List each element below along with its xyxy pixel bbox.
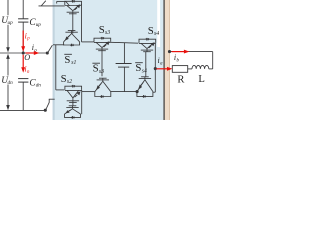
output node dot <box>154 67 157 70</box>
right output bus <box>154 43 156 92</box>
left column right bus <box>81 4 83 42</box>
wire bus to S_s3 <box>82 41 95 43</box>
S_s3 to S-bar-s3 link <box>101 51 103 77</box>
neutral vertical wire <box>55 45 57 90</box>
svg-text:S: S <box>99 24 105 36</box>
left voltage rail upper segment <box>7 0 9 15</box>
capacitor C_up branch top lead <box>22 0 24 19</box>
red arrow i_p <box>22 31 24 48</box>
mid bottom wire <box>82 91 95 93</box>
label S-bar s1 <box>64 53 72 55</box>
capacitor C_up plates <box>18 18 28 20</box>
tan strip (shadow band) <box>165 0 170 120</box>
svg-text:s4: s4 <box>142 68 147 75</box>
svg-text:s4: s4 <box>154 30 159 37</box>
switch S_s2 upper device <box>65 86 82 90</box>
flying capacitor bottom lead <box>123 67 125 92</box>
C_up bottom lead <box>22 22 24 53</box>
S_s2 pair link <box>72 102 74 105</box>
svg-text:p: p <box>26 37 30 42</box>
white gap stripe top right <box>157 0 160 47</box>
bottom rail node dot <box>44 109 47 112</box>
switch S-bar-s4 (rotated, stretched) <box>137 92 153 97</box>
bottom entry blade switch <box>46 102 49 109</box>
switch S_s4 <box>139 39 156 43</box>
bottom entry riser <box>48 99 50 102</box>
capacitor C_dn plates <box>18 78 28 80</box>
label S-bar s4 <box>135 62 143 64</box>
O entry node dot <box>46 51 49 54</box>
wire S_s3 to S_s4 <box>111 41 139 44</box>
switch S-bar-s3 (rotated, stretched) <box>95 92 111 97</box>
flying capacitor top lead <box>123 43 125 64</box>
label S-bar s3 <box>92 62 100 64</box>
red arrow i_o <box>26 52 35 54</box>
svg-text:b: b <box>177 58 180 63</box>
bottom dc rail <box>0 109 45 111</box>
switch S1 top-left (unlabelled upper device) <box>65 1 82 5</box>
load right vertical wire <box>212 52 214 69</box>
bottom-left right bus <box>81 90 83 114</box>
wire L to corner <box>209 68 213 70</box>
svg-text:s2: s2 <box>67 79 72 85</box>
inductor L coil <box>192 65 209 69</box>
S_s4 to S-bar-s4 link <box>145 52 147 77</box>
wire <box>111 91 137 93</box>
left voltage rail mid segment with down arrow (U_up) <box>7 25 9 49</box>
converter block background <box>54 0 164 120</box>
red arrow i_n <box>22 55 24 68</box>
svg-text:n: n <box>27 70 30 75</box>
svg-text:dn: dn <box>36 82 42 88</box>
svg-text:S: S <box>61 73 67 85</box>
svg-text:S: S <box>64 54 70 66</box>
junction dot mid bottom <box>136 90 139 93</box>
link wire S1 to S2 <box>72 14 74 34</box>
neutral to S_s2 wire <box>56 89 64 91</box>
svg-text:s3: s3 <box>99 69 104 75</box>
svg-text:S: S <box>93 63 99 75</box>
node O junction dot <box>22 51 25 54</box>
lower rail up arrow (U_dn) <box>6 54 10 59</box>
wire R to L <box>188 68 192 70</box>
O midpoint wire <box>0 52 47 54</box>
svg-text:O: O <box>24 53 30 62</box>
top dc feed wire <box>39 5 65 7</box>
switch S_s2 lower device (rotated) <box>65 114 81 117</box>
svg-text:R: R <box>177 75 185 86</box>
switch S-bar-s1 device (rotated) <box>64 42 80 45</box>
top return node dot <box>168 50 171 53</box>
block left soft edge <box>53 0 54 120</box>
top return wire <box>170 51 213 53</box>
red arrow i_b <box>172 51 185 53</box>
svg-text:s3: s3 <box>105 30 110 36</box>
switch S_s3 <box>94 38 111 42</box>
red arrow i_a <box>157 68 169 70</box>
O entry wire into block <box>53 44 64 46</box>
top inner step link <box>56 1 58 3</box>
C_dn bottom lead <box>22 82 24 110</box>
O entry blade switch <box>48 45 53 52</box>
bus to staple link <box>153 91 155 93</box>
top entry blade switch <box>41 1 46 6</box>
block right dark border <box>163 0 165 120</box>
svg-text:L: L <box>198 74 204 85</box>
left voltage rail lower segment with down arrow <box>7 85 9 107</box>
resistor R body <box>172 66 187 73</box>
svg-text:S: S <box>135 62 141 74</box>
flying capacitor plates <box>116 63 132 65</box>
svg-text:up: up <box>36 22 42 28</box>
svg-text:S: S <box>148 25 154 37</box>
svg-text:s1: s1 <box>71 60 76 66</box>
bottom entry wire into block <box>49 98 55 100</box>
